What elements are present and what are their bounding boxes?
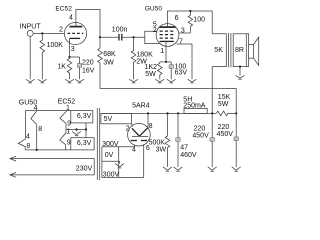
wire secondary top to speaker	[246, 34, 248, 45]
input jack J1	[20, 24, 42, 37]
node cathode	[68, 56, 70, 58]
capacitor 47/460V filter	[176, 113, 197, 166]
svg-text:1K: 1K	[57, 63, 66, 70]
transformer T1 winding 6,3V GU50 heaters	[71, 138, 94, 150]
wire heater bus L1	[25, 110, 70, 112]
ground (220/16V)	[75, 79, 84, 83]
wire EC52 cathode down	[69, 38, 71, 57]
capacitor 220/450V filter 2	[217, 113, 239, 166]
svg-text:8: 8	[26, 143, 30, 150]
wire jack to EC52 grid	[33, 32, 65, 34]
transformer T1 winding 230V mains	[11, 159, 95, 175]
node screen resistor top	[189, 10, 191, 12]
wire heater bus L4	[25, 149, 71, 151]
wire GU50 anode up and to OPT	[168, 11, 213, 34]
transformer T1 winding 6,3V EC52 heaters	[71, 111, 93, 123]
ground (220uF 1)	[208, 167, 217, 171]
resistor 68K 3W plate load	[98, 48, 116, 66]
svg-text:100: 100	[193, 16, 205, 23]
node choke out	[211, 112, 213, 114]
svg-text:3: 3	[71, 46, 75, 53]
resistor 1K cathode	[57, 57, 71, 79]
svg-text:450V: 450V	[192, 132, 209, 139]
node rectifier output	[147, 112, 149, 114]
wire secondary bottom to speaker	[246, 58, 248, 66]
svg-text:3W: 3W	[103, 59, 114, 66]
svg-text:9: 9	[67, 120, 71, 127]
capacitor 100/63V cathode bypass	[169, 62, 187, 79]
svg-text:1: 1	[66, 129, 70, 136]
heater GU50 A	[19, 100, 37, 150]
capacitor 220/450V filter 1	[192, 113, 214, 166]
svg-text:9: 9	[67, 140, 71, 147]
wire grid tie GU50	[145, 31, 161, 43]
transformer T2 secondary 8R	[233, 34, 246, 67]
svg-text:68K: 68K	[103, 51, 116, 58]
svg-text:500K: 500K	[149, 139, 166, 146]
svg-text:5W: 5W	[218, 101, 229, 108]
heater EC52 A	[58, 99, 76, 130]
speaker LS1	[249, 37, 259, 65]
transformer T2 output primary 5K	[212, 34, 226, 67]
resistor 100K grid leak	[40, 33, 63, 79]
node heater L2	[85, 128, 87, 130]
svg-text:4: 4	[69, 15, 73, 22]
svg-text:1: 1	[160, 48, 164, 55]
wire jack sleeve down	[29, 36, 31, 79]
ground (1K2)	[155, 79, 164, 83]
node 47uF top	[177, 112, 179, 114]
node GU50 grid	[133, 36, 135, 38]
transformer T1 winding 300V-0V-300V	[102, 141, 120, 178]
node speaker return	[239, 66, 241, 68]
wire cathode node	[70, 56, 80, 58]
svg-text:8R: 8R	[235, 47, 244, 54]
mains arrow bottom	[10, 173, 16, 178]
node L4 GU50 A	[36, 149, 38, 151]
svg-text:INPUT: INPUT	[20, 24, 42, 31]
tube 5AR4 rectifier	[128, 103, 151, 146]
capacitor 220/16V cathode bypass	[77, 57, 94, 79]
svg-text:8: 8	[149, 123, 153, 130]
svg-text:6: 6	[146, 145, 150, 152]
svg-text:EC52: EC52	[55, 6, 72, 13]
tube GU50 V2	[145, 5, 179, 46]
svg-text:63V: 63V	[175, 70, 188, 77]
wire pin2 to 5V winding	[132, 124, 134, 126]
wire OPT primary bottom to B+	[211, 67, 213, 114]
ground (1K)	[65, 79, 74, 83]
B+ rail after choke	[101, 112, 216, 114]
wire 6,3V winding taps	[85, 123, 87, 138]
wire pin8 to rail	[147, 113, 149, 127]
ground (500K)	[163, 167, 172, 171]
ground (heater center)	[72, 129, 81, 135]
node 15K out	[235, 112, 237, 114]
svg-text:4: 4	[34, 105, 38, 112]
svg-text:1K2: 1K2	[145, 64, 158, 71]
capacitor 100n coupling	[100, 26, 145, 40]
transformer T1 core	[97, 108, 99, 180]
ground (100K)	[38, 79, 47, 83]
svg-text:8: 8	[38, 126, 42, 133]
svg-text:180K: 180K	[136, 52, 153, 59]
node cathode GU50	[165, 61, 167, 63]
svg-text:5K: 5K	[214, 47, 223, 54]
ground (pin7)	[188, 79, 197, 83]
svg-text:300V: 300V	[102, 141, 119, 148]
wire GU50 cathode down	[165, 41, 167, 62]
wire pin7 to ground	[176, 44, 192, 79]
wire cathode node GU50	[160, 61, 171, 63]
ground (jack)	[26, 79, 35, 83]
svg-text:1: 1	[66, 105, 70, 112]
svg-text:230V: 230V	[76, 166, 93, 173]
ground (HV center tap)	[115, 161, 124, 168]
svg-text:450V: 450V	[217, 131, 234, 138]
ground (47uF)	[174, 167, 183, 171]
svg-text:250mA: 250mA	[183, 103, 206, 110]
wire EC52 anode up	[75, 9, 77, 26]
wire anode top to plate load	[76, 9, 100, 48]
ground (speaker)	[236, 76, 245, 80]
svg-text:GU50: GU50	[145, 5, 163, 12]
resistor 15K 5W dropper	[216, 94, 236, 116]
svg-text:100K: 100K	[47, 42, 64, 49]
svg-text:3W: 3W	[156, 146, 167, 153]
node EC52 plate	[99, 36, 101, 38]
svg-text:2: 2	[126, 125, 130, 132]
transformer T1 winding 5V	[101, 113, 132, 123]
svg-text:47: 47	[180, 145, 188, 152]
svg-text:2: 2	[59, 27, 63, 34]
svg-text:5W: 5W	[145, 71, 156, 78]
node grid	[41, 32, 43, 34]
svg-text:100n: 100n	[112, 26, 128, 33]
ground (180K)	[129, 79, 138, 83]
wire 68K down to B+ rail A	[100, 66, 236, 89]
svg-text:300V: 300V	[103, 172, 120, 179]
OPT core	[229, 33, 231, 67]
svg-text:220: 220	[82, 60, 94, 67]
svg-text:4: 4	[132, 147, 136, 154]
svg-text:5V: 5V	[104, 116, 113, 123]
resistor 180K 2W grid leak	[131, 37, 153, 79]
resistor 100 screen	[188, 11, 205, 33]
heater EC52 B	[60, 129, 66, 150]
svg-text:5AR4: 5AR4	[132, 103, 150, 110]
heater GU50 B	[18, 111, 25, 150]
wire rail A down join	[235, 88, 237, 113]
svg-text:4: 4	[26, 133, 30, 140]
wire screen to pin3	[179, 32, 191, 34]
svg-text:6,3V: 6,3V	[77, 140, 92, 147]
choke 5H 250mA	[183, 96, 207, 113]
svg-text:460V: 460V	[180, 152, 197, 159]
svg-text:6: 6	[175, 15, 179, 22]
ground (220uF 2)	[232, 167, 241, 171]
wire pin6 to HV winding bottom	[119, 144, 144, 177]
resistor 500K 3W bleeder	[149, 113, 170, 166]
wire heater bus L2	[66, 128, 86, 130]
wire speaker return to ground	[239, 67, 241, 76]
tube EC52 V1	[55, 6, 86, 45]
wire pin4 to HV winding top	[119, 145, 135, 147]
node heater ground tee	[75, 128, 77, 130]
mains arrow top	[10, 156, 16, 161]
svg-text:16V: 16V	[82, 68, 95, 75]
resistor 1K2 5W cathode	[145, 62, 163, 79]
ground (100/63V)	[167, 79, 176, 83]
svg-text:0V: 0V	[105, 152, 114, 159]
svg-text:15K: 15K	[218, 94, 231, 101]
node 500K top	[166, 112, 168, 114]
svg-text:6,3V: 6,3V	[77, 113, 92, 120]
